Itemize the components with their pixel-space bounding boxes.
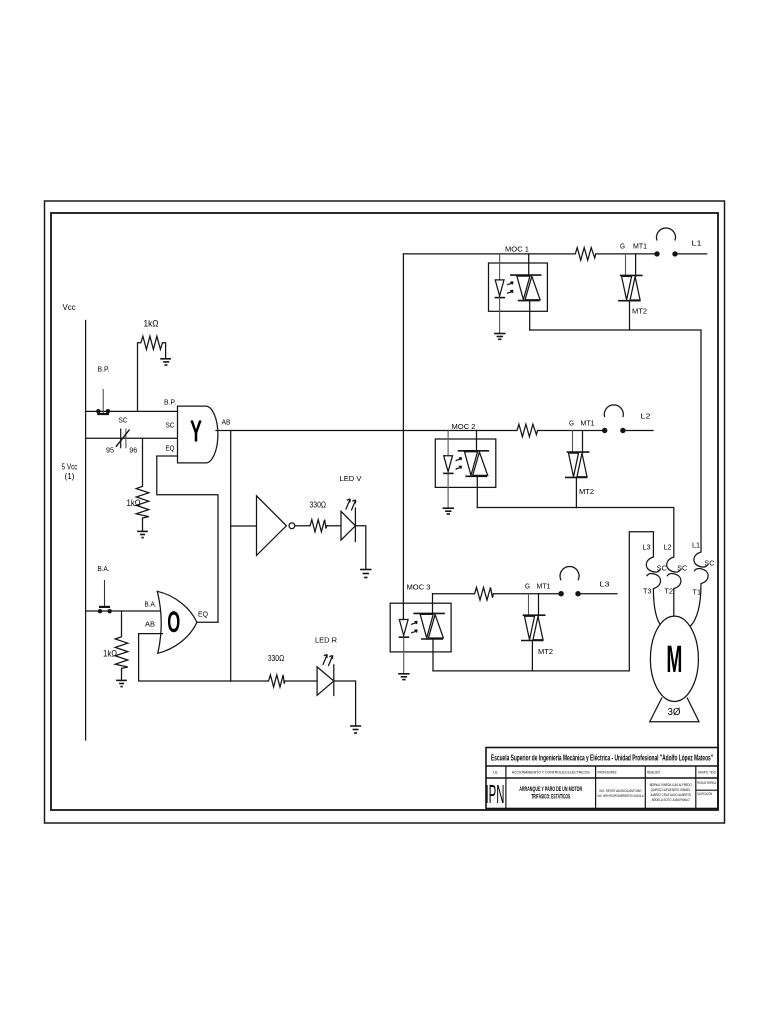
wire R1 left lead: [137, 343, 139, 412]
svg-text:QUIROZ LAFUENTES ISMAEL: QUIROZ LAFUENTES ISMAEL: [651, 788, 691, 792]
svg-text:T2: T2: [665, 587, 674, 596]
svg-text:MT2: MT2: [579, 489, 594, 496]
IPN logo text: [486, 779, 505, 809]
ground under LED R: [350, 726, 361, 733]
wire L2 stub: [623, 430, 653, 432]
svg-text:SC: SC: [704, 559, 715, 568]
MOC1 label: [505, 245, 529, 254]
U1 input label SC: [166, 421, 176, 430]
wire AB branch down: [230, 431, 232, 682]
triac Q1: [618, 254, 643, 330]
svg-text:FECHA DE ENTREGA: FECHA DE ENTREGA: [697, 781, 716, 785]
LED V arrows: [346, 499, 356, 511]
wire MOC3 row right: [493, 593, 561, 595]
wire B.A. row: [86, 610, 161, 612]
svg-text:LED V: LED V: [340, 474, 362, 483]
svg-text:IPN: IPN: [486, 779, 505, 809]
svg-text:ACCIONAMIENTO Y CONTROLES ELÉC: ACCIONAMIENTO Y CONTROLES ELÉCTRICOS: [512, 770, 590, 775]
svg-text:EQ: EQ: [166, 444, 175, 453]
resistor R3 330 body: [309, 520, 327, 532]
wire R4 to LED R: [285, 680, 317, 682]
svg-text:3Ø: 3Ø: [668, 707, 681, 718]
label MT2 Q1: [632, 309, 647, 316]
LED R diode: [317, 665, 334, 696]
svg-text:ING. HERI FELIPE BARRIENTOS GA: ING. HERI FELIPE BARRIENTOS GAXIOLA: [598, 794, 644, 798]
title block grade cell: [697, 781, 716, 796]
terminal dots L2: [602, 428, 626, 433]
wire MOC3 return to L3 column: [433, 532, 653, 671]
svg-text:G: G: [620, 244, 625, 251]
label MT1 MOC1: [633, 244, 647, 251]
title block students cell: [650, 783, 692, 802]
wire MOC1 row right: [597, 253, 657, 255]
wire L3 stub: [578, 593, 617, 595]
resistor R3 330 label: [310, 501, 327, 510]
triac Q2: [565, 431, 590, 508]
LED V diode: [341, 508, 355, 542]
svg-text:G: G: [525, 584, 530, 591]
svg-text:TRIFÁSICO: ESTÁTICOS: TRIFÁSICO: ESTÁTICOS: [531, 794, 570, 801]
wire T3 to motor: [653, 589, 661, 627]
wire to R5: [121, 611, 123, 634]
resistor R1 1k pull label: [144, 319, 159, 329]
svg-text:ARDELA SOTO JUAN PABLO: ARDELA SOTO JUAN PABLO: [652, 798, 690, 802]
wire SC row: [86, 437, 178, 439]
Vcc label: [63, 303, 76, 312]
U3 input label B.A.: [145, 602, 157, 609]
label MT1 MOC3: [537, 584, 551, 591]
wire LED V to ground: [355, 526, 365, 569]
MOC3 label: [407, 583, 431, 592]
wire MOC3 row left: [433, 593, 474, 595]
svg-text:330Ω: 330Ω: [310, 501, 327, 510]
wire MOC2 row right: [539, 430, 605, 432]
svg-text:ARRANQUE Y PARO DE UN MOTOR: ARRANQUE Y PARO DE UN MOTOR: [519, 786, 582, 793]
wire main drive vertical: [402, 254, 404, 620]
label G MOC3: [525, 584, 530, 591]
ground under MOC1 LED: [494, 334, 505, 340]
optocoupler MOC1 box: [489, 263, 548, 311]
svg-text:MOC 2: MOC 2: [452, 422, 476, 431]
svg-text:L2: L2: [641, 412, 651, 421]
MOC2 LED: [443, 431, 454, 508]
svg-text:T1: T1: [693, 588, 702, 597]
svg-text:330Ω: 330Ω: [268, 654, 285, 663]
inner border frame: [51, 213, 718, 810]
svg-text:MT1: MT1: [633, 244, 647, 251]
label 3-phase: [668, 707, 681, 718]
svg-text:SC: SC: [677, 564, 688, 573]
wire T2 to motor: [673, 589, 675, 617]
resistor R7 body: [516, 424, 539, 437]
svg-text:Vcc: Vcc: [63, 303, 76, 312]
svg-text:T3: T3: [643, 587, 652, 596]
svg-text:L3: L3: [600, 580, 610, 589]
title block row 2 labels: [493, 770, 716, 775]
wire AB output run: [216, 430, 516, 432]
motor base: [650, 698, 699, 722]
inverter U2: [257, 496, 295, 556]
title block drawing title: [519, 786, 582, 801]
resistor R4 330 label: [268, 654, 285, 663]
and-gate U1 Y: [178, 406, 218, 463]
ground under R5: [116, 680, 127, 686]
svg-text:1kΩ: 1kΩ: [127, 498, 141, 508]
or-gate U3 O: [157, 591, 197, 653]
LED R label: [315, 636, 338, 645]
svg-text:BERNAL PINEDA LUIS ALFREDO: BERNAL PINEDA LUIS ALFREDO: [650, 783, 692, 787]
svg-text:B.A.: B.A.: [145, 602, 157, 609]
svg-text:B.P.: B.P.: [98, 367, 110, 374]
svg-text:GRUPO: 7EV2: GRUPO: 7EV2: [698, 771, 716, 775]
svg-text:L2: L2: [664, 543, 672, 552]
label L2: [641, 412, 651, 421]
svg-text:L1: L1: [692, 239, 702, 248]
svg-text:5 Vcc: 5 Vcc: [62, 463, 78, 472]
B.A. label: [98, 566, 110, 573]
contact SC L2: [667, 557, 688, 589]
wire EQ feedback to U1: [157, 456, 218, 622]
wire to R2: [142, 438, 144, 484]
resistor R1 1k body: [138, 336, 166, 349]
svg-text:Y: Y: [190, 414, 202, 449]
svg-text:SC: SC: [166, 421, 176, 430]
wire R3 to LED V: [327, 525, 341, 527]
contact SC overload 95-96: [106, 416, 137, 455]
wire MOC2 return to L2 column: [477, 508, 674, 558]
MOC1 phototriac: [510, 254, 541, 330]
MOC2 light arrows: [456, 458, 462, 470]
pushbutton B.P. normally-closed: [96, 389, 110, 414]
svg-text:EQ: EQ: [198, 610, 208, 619]
svg-text:96: 96: [129, 448, 137, 455]
wire R5 bottom lead: [121, 671, 123, 680]
optocoupler MOC2 box: [435, 439, 496, 487]
U3 input label AB: [145, 622, 155, 629]
resistor R2 1k body: [136, 484, 149, 521]
resistor R6 body: [574, 248, 597, 261]
wire R2 bottom lead: [142, 520, 144, 531]
resistor R5 1k label: [103, 649, 117, 659]
label L3 column: [643, 543, 651, 552]
svg-text:PROFESORES: PROFESORES: [598, 771, 617, 775]
wire B.P. row: [86, 410, 178, 412]
svg-text:SC: SC: [119, 416, 129, 425]
MOC2 label: [452, 422, 476, 431]
svg-text:MT1: MT1: [581, 421, 595, 428]
outer border frame: [45, 201, 725, 823]
svg-text:JUAREZ CRUZ ALDO ALBERTO: JUAREZ CRUZ ALDO ALBERTO: [650, 793, 691, 797]
U1 output label AB: [222, 418, 231, 427]
contact SC L1: [694, 552, 715, 584]
svg-text:CALIFICACIÓN: CALIFICACIÓN: [697, 791, 712, 796]
B.P. label: [98, 367, 110, 374]
MOC3 LED: [399, 620, 410, 674]
resistor R4 330 body: [267, 675, 285, 687]
svg-text:1kΩ: 1kΩ: [103, 649, 117, 659]
label L2 column: [664, 543, 672, 552]
breaker arc L3: [560, 566, 579, 580]
title block table: [486, 748, 718, 809]
Vcc rail wire: [85, 321, 87, 741]
5 Vcc (1) label: [62, 463, 78, 482]
svg-text:AB: AB: [145, 622, 155, 629]
contact SC L3: [646, 557, 667, 589]
title block header text: [491, 754, 713, 763]
svg-text:MT1: MT1: [537, 584, 551, 591]
svg-text:G: G: [569, 421, 574, 428]
pushbutton B.A. normally-open: [98, 580, 112, 613]
svg-text:UL: UL: [493, 771, 498, 775]
wire MOC1 return to L1 column: [530, 330, 701, 552]
svg-text:Escuela Superior de Ingeniería: Escuela Superior de Ingeniería Mecánica …: [491, 754, 713, 763]
svg-text:MOC 1: MOC 1: [505, 245, 529, 254]
ground under R1: [160, 359, 171, 365]
ground under R2: [137, 531, 148, 537]
svg-text:REALIZÓ: REALIZÓ: [647, 770, 660, 775]
label G MOC1: [620, 244, 625, 251]
label L3 stub: [600, 580, 610, 589]
wire inverter input: [231, 525, 257, 527]
svg-text:95: 95: [106, 448, 114, 455]
svg-text:M: M: [666, 639, 682, 681]
breaker arc L1: [657, 228, 676, 241]
label T2: [665, 587, 674, 596]
svg-text:LED R: LED R: [315, 636, 338, 645]
label T3: [643, 587, 652, 596]
label MT2 Q3: [538, 649, 553, 656]
optocoupler MOC3 box: [390, 603, 451, 652]
label L1: [692, 239, 702, 248]
U3 output label EQ: [198, 610, 208, 619]
U1 input label B.P.: [164, 400, 176, 407]
ground under MOC3 LED: [398, 674, 409, 680]
ground under LED V: [360, 570, 371, 578]
terminal dots L1: [654, 251, 677, 256]
MOC2 phototriac: [458, 431, 489, 508]
resistor R5 1k body: [115, 634, 128, 671]
MOC1 light arrows: [507, 282, 513, 294]
label L1 column: [692, 541, 700, 550]
wire LED R row: [231, 680, 267, 682]
wire MOC1 row left: [403, 253, 573, 255]
terminal dots L3: [558, 591, 580, 596]
label MT2 Q2: [579, 489, 594, 496]
svg-text:MOC 3: MOC 3: [407, 583, 431, 592]
label G MOC2: [569, 421, 574, 428]
svg-text:(1): (1): [65, 472, 75, 481]
svg-text:O: O: [167, 606, 180, 639]
wire L1 stub: [675, 253, 707, 255]
wire U2 output: [295, 525, 309, 527]
MOC3 light arrows: [411, 621, 417, 633]
svg-text:SC: SC: [657, 564, 668, 573]
U1 input label EQ: [166, 444, 175, 453]
svg-text:AB: AB: [222, 418, 231, 427]
svg-text:B.P.: B.P.: [164, 400, 176, 407]
LED R arrows: [323, 655, 333, 667]
wire T1 to motor: [690, 584, 701, 627]
MOC1 LED: [495, 254, 506, 333]
ground under MOC2 LED: [443, 508, 454, 514]
wire LED R to ground: [334, 681, 356, 726]
breaker arc L2: [604, 405, 623, 417]
LED V label: [340, 474, 362, 483]
title block professors cell: [598, 789, 644, 798]
resistor R2 1k label: [127, 498, 141, 508]
label T1: [693, 588, 702, 597]
wire OR output to feedback: [197, 621, 218, 623]
motor M: [650, 616, 698, 701]
svg-text:MT2: MT2: [632, 309, 647, 316]
resistor R8 body: [473, 587, 493, 600]
triac Q3: [521, 594, 546, 671]
svg-text:L1: L1: [692, 541, 700, 550]
wire AB into U3: [139, 634, 231, 681]
wire R1 right lead: [165, 343, 167, 359]
svg-text:1kΩ: 1kΩ: [144, 319, 159, 329]
svg-text:B.A.: B.A.: [98, 566, 110, 573]
label MT1 MOC2: [581, 421, 595, 428]
MOC3 phototriac: [413, 594, 444, 671]
svg-text:L3: L3: [643, 543, 651, 552]
svg-text:MT2: MT2: [538, 649, 553, 656]
svg-text:ING. REYES VALENCIA ANTONIO: ING. REYES VALENCIA ANTONIO: [600, 789, 642, 793]
